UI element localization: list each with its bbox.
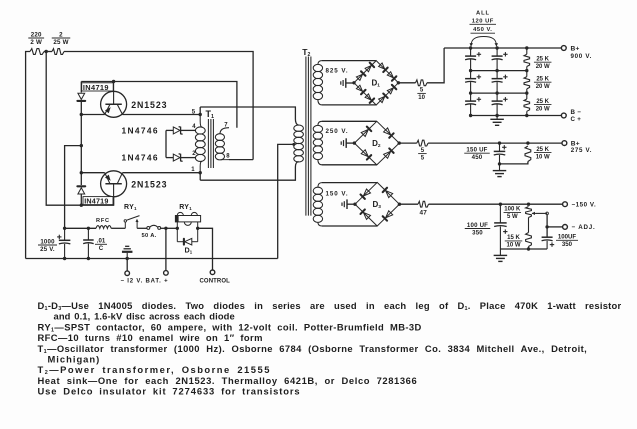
node dot -150V pot tap	[527, 203, 530, 206]
svg-text:1000: 1000	[40, 238, 55, 245]
resistor 220 ohm 2W	[30, 49, 44, 55]
capacitors C1-C6 120uF 450V bank	[465, 48, 508, 116]
transformer T2 core	[306, 57, 311, 216]
potentiometer 100K 5W	[526, 207, 549, 218]
wire: collector bus bottom y=180.2 to T2 primary bottom	[200, 162, 298, 181]
label 150 V.	[326, 190, 349, 197]
svg-text:2: 2	[59, 31, 63, 38]
wire: bank rung 1	[471, 70, 527, 72]
bridge rectifier D3 (reversed)	[353, 182, 401, 226]
node: Q2 emitter junction dot	[80, 171, 83, 174]
svg-text:350: 350	[562, 241, 573, 248]
label 150UF/450	[464, 147, 490, 161]
label RY1 (coil)	[179, 204, 192, 211]
label D1 (relay diode)	[185, 246, 193, 255]
svg-text:100 K: 100 K	[504, 207, 521, 213]
label 5/5	[418, 148, 427, 161]
diode D1 relay snubber	[177, 228, 197, 245]
wire: Q1 base line y=81.5 to T1 pin7 riser	[81, 82, 237, 128]
ground at 900V bank	[490, 116, 504, 126]
svg-text:− ADJ.: − ADJ.	[572, 224, 596, 231]
wire: 825V winding to D1 bottom	[322, 104, 376, 106]
wire: pin5 node riser	[199, 107, 201, 115]
label 825 V.	[326, 68, 349, 75]
relay coil RY1	[175, 212, 200, 228]
svg-text:10 W: 10 W	[536, 154, 550, 160]
node dot 275V cap tap	[498, 141, 501, 144]
wire: T2 center tap riser to battery rail	[278, 144, 294, 258]
wire: bank bottom rung to B-/C+ terminal	[471, 115, 562, 117]
resistor 47 ohm	[418, 201, 429, 207]
transformer T1 primary winding (pins 5-4-2-1)	[195, 115, 205, 173]
transistor Q1 2N1523 (top)	[101, 82, 127, 118]
ground (battery rail)	[122, 246, 133, 258]
node dot .01 bottom rail	[87, 257, 90, 260]
notes text block	[38, 300, 622, 397]
svg-text:825 V.: 825 V.	[326, 68, 349, 75]
resistor R bleeder 25K 20W #1	[524, 48, 530, 71]
wire: battery-negative rail riser to 220-ohm resistor, x=25.6	[26, 52, 30, 259]
svg-text:− I2 V. BAT. +: − I2 V. BAT. +	[121, 279, 169, 285]
svg-text:and 0.1, 1.6-kV disc across ea: and 0.1, 1.6-kV disc across each diode	[54, 311, 235, 322]
node dots rung1	[469, 69, 529, 72]
svg-text:150 V.: 150 V.	[326, 190, 349, 197]
svg-text:25 K: 25 K	[536, 77, 549, 83]
resistor 25K 10W	[525, 146, 531, 162]
label 2/25W	[52, 31, 71, 46]
wire: wiper dropper	[546, 215, 548, 238]
wire: pin1 node dropper	[199, 173, 201, 181]
battery negative rail	[26, 258, 278, 260]
capacitor 100uF 350 (left)	[494, 204, 507, 249]
svg-text:Use Delco insulator kit 727463: Use Delco insulator kit 7274633 for tran…	[38, 386, 301, 397]
wire: 25K bottom to cap stem	[500, 162, 528, 164]
svg-text:C +: C +	[571, 116, 582, 123]
wire: 250V winding to D2 bottom	[322, 164, 377, 166]
terminal -150V	[563, 202, 568, 207]
ground at 275V filter	[493, 171, 507, 177]
label 100UF/350 (right)	[556, 234, 578, 248]
svg-text:15 K: 15 K	[507, 235, 520, 241]
terminal battery +	[164, 271, 169, 276]
wire: 250V winding to D2 top	[322, 120, 377, 122]
wire: D2 plus to R 5/5	[399, 142, 417, 144]
node dot 1000uF top	[63, 227, 66, 230]
svg-text:CONTROL: CONTROL	[200, 279, 231, 285]
svg-text:450: 450	[472, 154, 483, 161]
svg-text:IN4719: IN4719	[84, 197, 108, 206]
svg-text:100UF: 100UF	[558, 234, 577, 241]
chassis ground at D3 minus	[342, 199, 355, 209]
node: Q1 emitter junction dot	[80, 113, 83, 116]
svg-text:450 V.: 450 V.	[473, 27, 492, 33]
label 25K/10W	[534, 147, 552, 160]
svg-text:RY1: RY1	[124, 204, 137, 211]
wire: R 5/10 to 900V rail	[427, 48, 444, 83]
ground at -150V filter	[494, 249, 508, 261]
label 220/2W	[28, 31, 44, 46]
resistor R bleeder 25K 20W #2	[524, 71, 530, 94]
transformer T1 core	[208, 119, 213, 168]
wire: collector bus top y=107 to T2 primary top	[200, 107, 298, 125]
wire: Q2 collector line to T1 pin1	[123, 172, 201, 174]
capacitor 150uF 450	[494, 143, 507, 170]
svg-text:10: 10	[418, 95, 425, 101]
wire: battery+ riser	[165, 228, 167, 270]
node: Q1 base junction dot	[112, 80, 115, 83]
label 5/10	[417, 88, 426, 101]
label -150 V.	[572, 202, 597, 209]
label pin 8	[226, 154, 230, 160]
svg-text:25 K: 25 K	[536, 57, 549, 63]
wire: 900V top rail	[444, 47, 561, 49]
label pin 2	[192, 151, 196, 157]
svg-text:B −: B −	[571, 109, 582, 116]
svg-text:.01: .01	[97, 238, 106, 245]
node dot 15K bottom	[527, 247, 530, 250]
label box IN4719 (bottom)	[83, 197, 113, 206]
svg-text:250 V.: 250 V.	[326, 128, 349, 135]
wire: 150V winding to D3 top	[322, 182, 377, 184]
diode CR1 1N4719 (top)	[77, 82, 85, 115]
label pin 4	[192, 124, 196, 130]
svg-text:2 W: 2 W	[30, 39, 42, 46]
zener VR2 1N4746 (bottom)	[166, 154, 196, 162]
svg-text:2N1523: 2N1523	[131, 100, 167, 110]
fuse 50A	[137, 225, 169, 229]
node: bottom diode to base-line dot	[80, 204, 83, 207]
svg-text:25 W: 25 W	[53, 39, 68, 46]
node: T2 center tap blob	[292, 143, 295, 146]
node dots bottom rung	[469, 114, 529, 117]
capacitor 1000uF 25V	[57, 228, 70, 258]
label 25K/20W #2	[534, 77, 552, 90]
svg-text:150 UF: 150 UF	[466, 147, 487, 154]
svg-text:220: 220	[31, 31, 42, 38]
svg-text:ALL: ALL	[476, 11, 490, 17]
node dot battery+ tap	[164, 227, 167, 230]
bridge rectifier D2	[353, 121, 401, 165]
resistor 5 ohm 10W	[416, 80, 428, 86]
capacitor 100uF 350 (right)	[542, 237, 555, 249]
terminal B- / C+	[561, 113, 566, 118]
terminal battery -	[125, 271, 130, 276]
label B+ 275V	[571, 140, 593, 154]
bridge rectifier D1 (two diodes per leg)	[352, 61, 400, 105]
terminal B+ 275V	[562, 141, 567, 146]
svg-text:47: 47	[419, 209, 427, 216]
wire: R 47 to -150V terminal	[429, 203, 563, 205]
node dot cap/bleeder join	[498, 162, 501, 165]
svg-text:25 K: 25 K	[536, 99, 549, 105]
resistor R bleeder 25K 20W #3	[524, 93, 530, 115]
svg-text:Heat sink—One for each 2N1523.: Heat sink—One for each 2N1523. Thermallo…	[38, 375, 418, 386]
svg-text:RY1: RY1	[179, 204, 192, 211]
label 250 V.	[326, 128, 349, 135]
node dot ground on rail	[126, 257, 129, 260]
node dot -150V cap tap	[499, 203, 502, 206]
wire: zener series link	[165, 130, 167, 157]
wire: relay to CONTROL	[198, 228, 213, 270]
label 25K/20W #1	[534, 57, 552, 70]
label CONTROL	[200, 279, 231, 285]
inductor RFC	[96, 226, 111, 229]
svg-text:50 A.: 50 A.	[142, 233, 157, 239]
node dot relay coil right	[196, 227, 199, 230]
label 100UF/350 (left)	[465, 222, 491, 236]
label RY1 (contact)	[124, 204, 137, 211]
wire: R 5/5 to B+275 terminal	[428, 142, 562, 144]
label -ADJ.	[572, 224, 596, 231]
terminal B+ 900V	[561, 46, 566, 51]
svg-text:IN4719: IN4719	[83, 83, 109, 92]
wire: 150V winding to D3 bottom	[322, 225, 377, 227]
wire: D3 to R 47	[399, 203, 418, 205]
wire: Q1 collector line to T1 pin5	[123, 114, 201, 116]
transformer T1 secondary winding (pins 7-8)	[215, 128, 229, 160]
wire: bias riser x=46 down to base line	[46, 52, 113, 206]
node: T1 pin5 dot	[199, 113, 202, 116]
wire: Q1 emitter line	[81, 114, 104, 116]
label -12V BAT +	[121, 279, 169, 285]
label B- C+	[571, 109, 582, 123]
label 25K/20W #3	[534, 99, 552, 112]
wire: -ADJ lead	[547, 226, 563, 228]
wire: T1 pin8 lead to supply riser	[229, 159, 253, 161]
label T2	[302, 47, 310, 58]
wire: rail to battery- terminal	[126, 259, 128, 271]
wire: -150 filter bottom link	[500, 248, 547, 250]
label T1	[206, 109, 215, 120]
svg-text:Michigan): Michigan)	[48, 354, 101, 365]
svg-text:20 W: 20 W	[536, 84, 550, 90]
svg-text:10 W: 10 W	[506, 243, 520, 249]
terminal -ADJ	[563, 225, 568, 230]
svg-text:20 W: 20 W	[536, 106, 550, 112]
node dot .01 cap top	[87, 227, 90, 230]
svg-text:RFC—10 turns #10 enamel wire o: RFC—10 turns #10 enamel wire on 1″ form	[38, 332, 263, 343]
wire: emitter feed to RFC node	[65, 146, 82, 229]
svg-text:25 K: 25 K	[536, 147, 549, 153]
node dot 275V bleeder tap	[526, 141, 529, 144]
svg-text:25 V.: 25 V.	[40, 246, 55, 253]
svg-text:RFC: RFC	[96, 218, 110, 224]
label Q2 2N1523	[131, 179, 167, 189]
label 50 A.	[142, 233, 157, 239]
relay contact RY1 switch	[124, 216, 139, 229]
svg-text:120 UF: 120 UF	[472, 18, 494, 24]
transformer T2 secondary winding 250V	[313, 121, 322, 165]
label 1N4746 (top)	[122, 126, 159, 136]
svg-text:100 UF: 100 UF	[467, 222, 488, 229]
label Q1 2N1523	[131, 100, 167, 110]
node dot -ADJ tap	[545, 225, 548, 228]
node dots on 900V rail	[469, 46, 529, 49]
wire: emitter bus x=81.3	[80, 115, 82, 173]
svg-text:275 V.: 275 V.	[571, 147, 593, 154]
label B+ 900V	[571, 46, 593, 60]
label pin 7	[224, 122, 228, 128]
label 100K/5W	[504, 207, 522, 220]
wire between resistors	[44, 51, 52, 53]
wire: supply line y=51.5 to T1 pin8 riser	[64, 52, 253, 160]
wire: D1 plus to R 5/10	[398, 82, 415, 84]
label 1N4746 (bottom)	[122, 152, 159, 162]
node dots rung2	[469, 91, 529, 94]
resistor 2 ohm 25W	[52, 49, 64, 55]
label box IN4719 (top)	[82, 83, 114, 92]
transformer T2 primary winding	[294, 125, 304, 162]
chassis ground at D1 minus	[341, 78, 354, 88]
svg-text:B+: B+	[571, 46, 580, 53]
transformer T2 secondary winding 150V	[313, 183, 322, 226]
node dot relay coil left	[176, 227, 179, 230]
svg-text:5 W: 5 W	[507, 214, 518, 220]
wire: 825V winding to D1 top	[322, 60, 376, 62]
zener VR1 1N4746 (top)	[166, 127, 196, 135]
svg-text:−150 V.: −150 V.	[572, 202, 597, 209]
svg-text:1N4746: 1N4746	[122, 126, 159, 136]
label 15K/10W	[505, 235, 523, 248]
svg-text:900 V.: 900 V.	[571, 53, 593, 60]
wire: Q2 emitter line	[81, 172, 104, 174]
label RFC	[96, 218, 110, 224]
svg-text:2N1523: 2N1523	[131, 179, 167, 189]
wire: bank rung 2	[471, 92, 527, 94]
chassis ground at D2 minus	[341, 138, 354, 148]
wire: RFC to switch	[111, 227, 125, 229]
svg-text:1N4746: 1N4746	[122, 152, 159, 162]
node dot 1000uF bottom rail	[63, 257, 66, 260]
svg-text:350: 350	[472, 229, 483, 236]
label 1000/25V	[38, 238, 57, 252]
label 47	[419, 209, 427, 216]
resistor 5 ohm 5W	[417, 140, 428, 146]
wire: fuse node to relay coil	[170, 227, 178, 229]
label pin 1	[191, 167, 195, 173]
node: emitter bus tap dot	[80, 144, 83, 147]
label .01/C	[95, 238, 107, 252]
resistor 15K 10W	[526, 218, 532, 250]
capacitor .01 disc	[83, 228, 94, 258]
transformer T2 secondary winding 825V	[313, 61, 322, 105]
wire: RFC feed	[65, 227, 96, 229]
svg-text:20 W: 20 W	[536, 64, 550, 70]
diode CR2 1N4719 (bottom)	[77, 173, 85, 206]
label ALL 120uF 450V with pointer arrows	[470, 11, 498, 47]
svg-text:C: C	[99, 245, 104, 252]
label pin 5	[192, 109, 196, 115]
transistor Q2 2N1523 (bottom)	[101, 171, 127, 205]
node: T1 pin1 dot	[199, 171, 202, 174]
terminal CONTROL	[210, 270, 215, 275]
svg-text:T1—Oscillator transformer (100: T1—Oscillator transformer (1000 Hz). Osb…	[38, 343, 588, 355]
node A junction dot (bias node)	[45, 50, 48, 53]
